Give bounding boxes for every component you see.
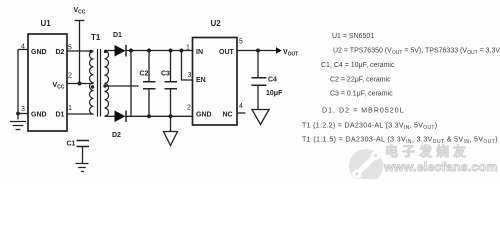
svg-text:IN: IN <box>196 49 203 56</box>
pin number 5 U1 <box>68 45 72 52</box>
note line U2 <box>333 48 500 57</box>
node EN tap junction <box>180 49 184 53</box>
wire U2 OUT to VOUT arrow <box>237 50 276 52</box>
pin number 4 <box>21 44 25 51</box>
svg-text:C4: C4 <box>268 77 277 84</box>
svg-text:5: 5 <box>239 39 243 46</box>
wire U2 NC stub <box>237 112 246 114</box>
node C2 top junction <box>147 49 151 53</box>
watermark logo circle <box>349 149 383 183</box>
note line T1 ratio 1 <box>302 123 437 132</box>
svg-text:U1: U1 <box>41 19 52 28</box>
svg-text:VOUT: VOUT <box>283 49 298 58</box>
svg-text:D1, D2 = MBR0520L: D1, D2 = MBR0520L <box>322 108 405 115</box>
node C4 junction <box>256 49 260 53</box>
wire rectifier vertical connector <box>130 51 132 117</box>
node C2 bottom junction <box>147 114 151 118</box>
wire U1 pin4 stub <box>18 49 28 51</box>
label U2 <box>211 19 222 28</box>
svg-text:4: 4 <box>239 103 243 110</box>
capacitor C4 <box>252 51 267 110</box>
node primary center tap <box>91 85 94 88</box>
pin number 3 U2 <box>188 72 192 79</box>
wire left ground rail <box>17 50 19 120</box>
pin number 5 U2 <box>239 39 243 46</box>
wire U1 pin3 stub <box>18 113 28 115</box>
svg-text:3: 3 <box>188 72 192 79</box>
label C1 <box>67 141 76 148</box>
svg-text:5: 5 <box>68 45 72 52</box>
label U2 pin EN <box>196 77 206 84</box>
svg-text:GND: GND <box>196 112 212 119</box>
watermark chinese text <box>385 144 470 159</box>
label C4 <box>268 77 277 84</box>
svg-text:3: 3 <box>21 106 25 113</box>
note line C2 <box>330 77 391 84</box>
svg-text:C3: C3 <box>161 71 170 78</box>
svg-text:D2: D2 <box>112 132 121 139</box>
ground GND4 symbol <box>76 164 89 172</box>
svg-text:VCC: VCC <box>74 7 86 16</box>
wire T1 secondary top to D1 <box>105 50 115 52</box>
svg-text:U1 = SN6501: U1 = SN6501 <box>332 33 374 40</box>
note line C1 C4 <box>321 62 395 69</box>
svg-text:D2: D2 <box>56 49 65 56</box>
pin number 2 U2 <box>187 105 191 112</box>
power VCC symbol <box>75 20 85 22</box>
ground GND2 symbol triangle <box>164 116 178 145</box>
label U1 pin D2 <box>56 49 65 56</box>
label C3 <box>161 71 170 78</box>
svg-text:GND: GND <box>31 49 47 56</box>
label U2 pin OUT <box>219 49 235 56</box>
svg-text:GND: GND <box>31 112 47 119</box>
pin number 2 U1 <box>68 73 72 80</box>
label VCC supply <box>74 7 86 16</box>
node T1 secondary phase dot <box>104 50 107 53</box>
wire U1 D2 pin to T1 primary top <box>67 50 94 52</box>
capacitor C3 <box>165 51 178 117</box>
label VOUT <box>283 49 298 58</box>
transformer T1 secondary winding <box>105 51 109 117</box>
note line D1 D2 <box>322 108 405 115</box>
label U2 pin GND <box>196 112 212 119</box>
node VCC junction <box>78 82 82 86</box>
pin number 1 U1 <box>68 105 72 112</box>
transformer T1 primary winding <box>90 51 94 114</box>
node pin3 junction <box>16 112 20 116</box>
wire T1 secondary bottom to D2 <box>105 115 115 117</box>
diode D2 <box>115 111 127 123</box>
label U1 pin GND top <box>31 49 47 56</box>
label D1 <box>113 32 122 39</box>
svg-text:U2: U2 <box>211 19 222 28</box>
svg-text:U2 = TPS76350 (VOUT = 5V), TPS: U2 = TPS76350 (VOUT = 5V), TPS76333 (VOU… <box>333 48 500 57</box>
note line T1 ratio 2 <box>302 137 498 146</box>
svg-text:C2 = 22μF, ceramic: C2 = 22μF, ceramic <box>330 77 391 84</box>
svg-text:C3 = 0.1μF, ceramic: C3 = 0.1μF, ceramic <box>330 91 393 98</box>
capacitor C1 <box>77 141 90 164</box>
label C2 <box>140 71 149 78</box>
pin number 1 U2 <box>186 45 190 52</box>
label U1 pin D1 <box>56 112 65 119</box>
node D1 output junction <box>129 49 133 53</box>
svg-text:C2: C2 <box>140 71 149 78</box>
capacitor C2 <box>143 51 156 117</box>
svg-text:2: 2 <box>68 73 72 80</box>
svg-text:4: 4 <box>21 44 25 51</box>
svg-text:2: 2 <box>187 105 191 112</box>
IC U1 box <box>28 34 67 131</box>
label U1 pin GND bottom <box>31 112 47 119</box>
svg-text:NC: NC <box>223 112 233 119</box>
pin number 4 U2 <box>239 103 243 110</box>
svg-text:www.elecfans.com: www.elecfans.com <box>383 160 498 174</box>
wire U1 D1 pin to T1 primary bottom <box>67 113 94 115</box>
wire bottom ground rail <box>126 115 193 117</box>
pin number 3 <box>21 106 25 113</box>
label D2 <box>112 132 121 139</box>
svg-text:EN: EN <box>196 77 206 84</box>
transformer T1 core <box>98 49 101 117</box>
node T1 secondary center tap dot <box>103 84 106 87</box>
svg-text:10μF: 10μF <box>266 90 283 97</box>
node C3 top junction <box>169 49 173 53</box>
ground GND3 symbol triangle <box>252 110 269 125</box>
node T1 primary phase dot <box>89 50 92 53</box>
node C3 bottom junction <box>169 114 173 118</box>
note line C3 <box>330 91 393 98</box>
svg-text:C1: C1 <box>67 141 76 148</box>
svg-text:OUT: OUT <box>219 49 235 56</box>
note line U1 <box>332 33 374 40</box>
label U2 pin IN <box>196 49 203 56</box>
svg-text:T1 (1:2.2) = DA2304-AL (3.3VIN: T1 (1:2.2) = DA2304-AL (3.3VIN, 5VOUT) <box>302 123 437 132</box>
svg-text:电子发烧友: 电子发烧友 <box>385 144 470 159</box>
IC U2 box <box>193 38 238 126</box>
wire secondary center tap <box>105 85 139 87</box>
wire VCC riser <box>79 21 81 84</box>
svg-text:C1, C4 = 10μF, ceramic: C1, C4 = 10μF, ceramic <box>321 62 395 69</box>
label U1 <box>41 19 52 28</box>
svg-text:D1: D1 <box>113 32 122 39</box>
label U2 pin NC <box>223 112 233 119</box>
svg-text:1: 1 <box>186 45 190 52</box>
arrow VOUT <box>276 47 282 53</box>
label T1 <box>91 33 101 42</box>
label C4 value <box>266 90 283 97</box>
wire EN tie to input rail <box>182 51 193 81</box>
label U1 pin VCC <box>53 82 65 91</box>
wire U1 VCC pin to T1 primary center tap <box>67 83 94 85</box>
watermark url text <box>383 160 498 174</box>
svg-text:T1: T1 <box>91 33 101 42</box>
svg-text:D1: D1 <box>56 112 65 119</box>
wire D1 cathode to top rail <box>126 50 193 52</box>
ground GND1 symbol <box>10 122 26 130</box>
svg-text:1: 1 <box>68 105 72 112</box>
diode D1 <box>115 45 127 57</box>
